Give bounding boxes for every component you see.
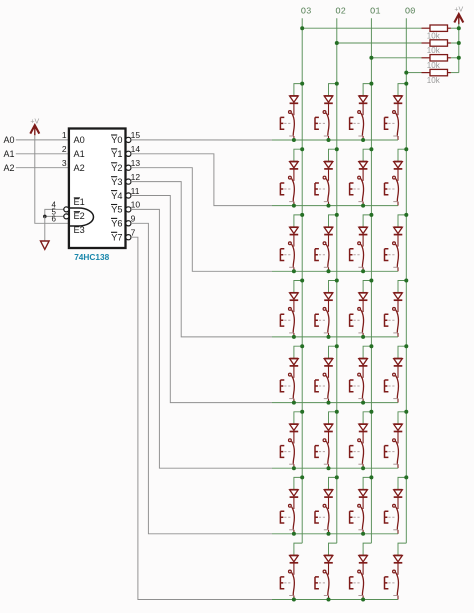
diode O1 row4 xyxy=(359,293,368,300)
bubble pin 15 xyxy=(126,137,131,142)
junction row 8 col O3 xyxy=(292,598,296,602)
pin label Y7 xyxy=(111,232,123,242)
svg-text:E2: E2 xyxy=(74,211,85,221)
wire resistor R1 to rail xyxy=(451,27,459,29)
junction tap O3 row3 xyxy=(300,213,304,217)
wire tap O0 row2 xyxy=(398,149,406,161)
svg-text:A0: A0 xyxy=(4,135,15,145)
wire diode to switch O1 row4 xyxy=(362,300,364,312)
wire switch to row O1 row3 xyxy=(362,267,364,271)
svg-text:Y5: Y5 xyxy=(111,205,122,215)
wire O2 to resistor R2 xyxy=(337,42,422,44)
svg-text:E1: E1 xyxy=(74,197,85,207)
switch O0 row3 xyxy=(385,242,399,267)
power +V right xyxy=(454,7,463,14)
diode O3 row6 xyxy=(290,424,299,431)
wire row 8 xyxy=(294,599,398,601)
junction row 1 col O1 xyxy=(361,138,365,142)
junction row 4 col O1 xyxy=(361,335,365,339)
svg-text:O2: O2 xyxy=(335,6,346,16)
wire column O3 xyxy=(301,18,303,543)
resistor R1 10k xyxy=(422,25,451,31)
wire row 3 xyxy=(294,270,398,272)
wire switch to row O1 row8 xyxy=(362,596,364,600)
pin label Y0 xyxy=(111,135,123,145)
wire +V to pin 6 E3 xyxy=(35,135,69,223)
junction tap O1 row5 xyxy=(369,344,373,348)
bubble pin 11 xyxy=(126,193,131,198)
svg-text:Y6: Y6 xyxy=(111,219,122,229)
diode O3 row8 xyxy=(290,555,299,562)
junction tap O2 row4 xyxy=(335,279,339,283)
wire row 1 xyxy=(294,139,398,141)
wire +V rail xyxy=(458,24,460,73)
bubble pin 4 xyxy=(64,207,69,212)
junction row 7 col O3 xyxy=(292,532,296,536)
pin label Y5 xyxy=(111,205,123,215)
wire tap O2 row7 xyxy=(329,477,337,489)
switch O3 row8 xyxy=(280,570,294,595)
wire tap O2 row3 xyxy=(329,215,337,227)
diode O2 row2 xyxy=(324,162,333,169)
wire row 4 left green xyxy=(272,336,294,338)
junction row 4 col O3 xyxy=(292,335,296,339)
wire diode to switch O2 row4 xyxy=(328,300,330,312)
junction tap O1 row6 xyxy=(369,410,373,414)
wire diode to switch O3 row8 xyxy=(293,563,295,575)
wire O3 to resistor R1 xyxy=(302,27,421,29)
resistor R4 10k xyxy=(422,69,451,75)
switch O2 row3 xyxy=(315,242,329,267)
svg-text:A0: A0 xyxy=(74,135,85,145)
wire switch to row O3 row2 xyxy=(293,202,295,206)
switch O2 row6 xyxy=(315,439,329,464)
wire diode to switch O2 row3 xyxy=(328,235,330,247)
wire column O0 xyxy=(405,18,407,543)
svg-text:3: 3 xyxy=(62,158,67,168)
wire diode to switch O3 row7 xyxy=(293,497,295,509)
diode O2 row7 xyxy=(324,490,333,497)
switch O0 row7 xyxy=(385,504,399,529)
wire diode to switch O2 row8 xyxy=(328,563,330,575)
switch O1 row7 xyxy=(350,504,364,529)
diode O0 row1 xyxy=(394,96,403,103)
wire column O1 xyxy=(370,18,372,543)
wire switch to row O1 row5 xyxy=(362,399,364,403)
svg-text:10k: 10k xyxy=(427,76,441,85)
diode O3 row5 xyxy=(290,359,299,366)
wire switch to row O0 row7 xyxy=(397,530,399,534)
junction row 5 col O1 xyxy=(361,401,365,405)
wire row 5 left green xyxy=(272,402,294,404)
wire tap O0 row7 xyxy=(398,477,406,489)
svg-text:O1: O1 xyxy=(370,6,381,16)
wire tap O0 row8 xyxy=(398,543,406,555)
switch O0 row4 xyxy=(385,308,399,333)
wire row 2 xyxy=(294,205,398,207)
wire diode to switch O2 row5 xyxy=(328,366,330,378)
wire switch to row O2 row1 xyxy=(328,136,330,140)
wire switch to row O3 row4 xyxy=(293,333,295,337)
wire diode to switch O2 row2 xyxy=(328,169,330,181)
wire switch to row O3 row6 xyxy=(293,464,295,468)
junction row 2 col O2 xyxy=(327,204,331,208)
wire tap O0 row4 xyxy=(398,281,406,293)
svg-text:E3: E3 xyxy=(74,225,85,235)
switch O1 row5 xyxy=(350,373,364,398)
pin label Y4 xyxy=(111,191,123,201)
junction tap O0 row2 xyxy=(404,147,408,151)
wire Y2 to row 3 xyxy=(131,168,272,272)
svg-text:O0: O0 xyxy=(405,6,416,16)
svg-text:14: 14 xyxy=(131,144,141,154)
wire diode to switch O3 row2 xyxy=(293,169,295,181)
wire O0 to resistor R4 xyxy=(406,72,421,74)
junction tap O1 row4 xyxy=(369,279,373,283)
wire tap O1 row2 xyxy=(363,149,371,161)
junction tap O2 row7 xyxy=(335,475,339,479)
wire diode to switch O2 row1 xyxy=(328,103,330,115)
junction tap O2 row5 xyxy=(335,344,339,348)
svg-text:2: 2 xyxy=(62,144,67,154)
switch O0 row5 xyxy=(385,373,399,398)
junction tap O1 row2 xyxy=(369,147,373,151)
bubble pin 12 xyxy=(126,179,131,184)
junction tap O3 row5 xyxy=(300,344,304,348)
wire tap O1 row4 xyxy=(363,281,371,293)
svg-text:13: 13 xyxy=(131,158,141,168)
wire resistor R4 to rail xyxy=(451,72,459,74)
wire diode to switch O3 row3 xyxy=(293,235,295,247)
junction row 2 col O3 xyxy=(292,204,296,208)
diode O1 row3 xyxy=(359,227,368,234)
wire diode to switch O0 row2 xyxy=(397,169,399,181)
wire switch to row O2 row2 xyxy=(328,202,330,206)
diode O1 row5 xyxy=(359,359,368,366)
junction pins 4-5 xyxy=(43,215,47,219)
junction tap O2 row6 xyxy=(335,410,339,414)
junction column O2 xyxy=(335,41,339,45)
wire diode to switch O3 row4 xyxy=(293,300,295,312)
junction row 6 col O2 xyxy=(327,466,331,470)
wire tap O2 row1 xyxy=(329,84,337,96)
wire switch to row O3 row3 xyxy=(293,267,295,271)
wire Y3 to row 4 xyxy=(131,182,272,337)
wire Y5 to row 6 xyxy=(131,209,272,468)
bubble pin 13 xyxy=(126,165,131,170)
diode O0 row4 xyxy=(394,293,403,300)
wire tap O1 row7 xyxy=(363,477,371,489)
pin label Y6 xyxy=(111,218,123,228)
diode O1 row7 xyxy=(359,490,368,497)
wire tap O2 row6 xyxy=(329,412,337,424)
resistor R2 10k xyxy=(422,40,451,46)
junction row 4 col O2 xyxy=(327,335,331,339)
wire tap O3 row6 xyxy=(294,412,302,424)
wire diode to switch O1 row7 xyxy=(362,497,364,509)
diode O2 row8 xyxy=(324,555,333,562)
switch O3 row1 xyxy=(280,111,294,136)
diode O3 row1 xyxy=(290,96,299,103)
switch O2 row4 xyxy=(315,308,329,333)
wire Y1 to row 2 xyxy=(131,154,272,206)
junction tap O2 row3 xyxy=(335,213,339,217)
diode O2 row1 xyxy=(324,96,333,103)
wire diode to switch O0 row4 xyxy=(397,300,399,312)
switch O0 row2 xyxy=(385,176,399,201)
wire tap O0 row5 xyxy=(398,346,406,358)
diode O1 row1 xyxy=(359,96,368,103)
junction row 2 col O1 xyxy=(361,204,365,208)
pin label E1 xyxy=(74,197,85,207)
diode O2 row5 xyxy=(324,359,333,366)
junction row 7 col O1 xyxy=(361,532,365,536)
wire diode to switch O3 row5 xyxy=(293,366,295,378)
switch O0 row1 xyxy=(385,111,399,136)
wire pin 4 E1 xyxy=(45,209,64,216)
switch O3 row4 xyxy=(280,308,294,333)
junction row 5 col O3 xyxy=(292,401,296,405)
wire O1 to resistor R3 xyxy=(371,57,421,59)
wire switch to row O1 row6 xyxy=(362,464,364,468)
wire tap O1 row1 xyxy=(363,84,371,96)
svg-text:Y7: Y7 xyxy=(111,233,122,243)
wire row 4 xyxy=(294,336,398,338)
wire switch to row O2 row7 xyxy=(328,530,330,534)
svg-text:15: 15 xyxy=(131,130,141,140)
wire row 2 left green xyxy=(272,205,294,207)
wire diode to switch O0 row6 xyxy=(397,432,399,444)
junction row 3 col O1 xyxy=(361,269,365,273)
wire tap O0 row1 xyxy=(398,84,406,96)
switch O0 row6 xyxy=(385,439,399,464)
junction tap O0 row3 xyxy=(404,213,408,217)
bubble pin 14 xyxy=(126,151,131,156)
svg-text:A2: A2 xyxy=(74,163,85,173)
wire tap O3 row4 xyxy=(294,281,302,293)
diode O0 row2 xyxy=(394,162,403,169)
wire tap O1 row3 xyxy=(363,215,371,227)
junction row 8 col O2 xyxy=(327,598,331,602)
pin label Y3 xyxy=(111,177,123,187)
wire tap O3 row2 xyxy=(294,149,302,161)
wire diode to switch O0 row5 xyxy=(397,366,399,378)
diode O1 row2 xyxy=(359,162,368,169)
svg-text:10: 10 xyxy=(131,200,141,210)
wire switch to row O1 row7 xyxy=(362,530,364,534)
wire diode to switch O1 row1 xyxy=(362,103,364,115)
wire tap O0 row6 xyxy=(398,412,406,424)
svg-text:11: 11 xyxy=(131,186,140,196)
svg-text:Y4: Y4 xyxy=(111,191,122,201)
wire tap O3 row3 xyxy=(294,215,302,227)
switch O1 row6 xyxy=(350,439,364,464)
junction tap O3 row7 xyxy=(300,475,304,479)
wire diode to switch O1 row6 xyxy=(362,432,364,444)
wire switch to row O0 row4 xyxy=(397,333,399,337)
switch O1 row4 xyxy=(350,308,364,333)
pin label Y2 xyxy=(111,163,123,173)
junction tap O3 row6 xyxy=(300,410,304,414)
wire diode to switch O2 row6 xyxy=(328,432,330,444)
wire switch to row O1 row1 xyxy=(362,136,364,140)
diode O2 row6 xyxy=(324,424,333,431)
switch O3 row6 xyxy=(280,439,294,464)
junction tap O0 row5 xyxy=(404,344,408,348)
junction tap O1 row1 xyxy=(369,82,373,86)
wire switch to row O0 row5 xyxy=(397,399,399,403)
diode O2 row3 xyxy=(324,227,333,234)
svg-text:10k: 10k xyxy=(427,61,441,70)
diode O3 row3 xyxy=(290,227,299,234)
wire A0 to pin 1 xyxy=(16,139,69,141)
wire Y6 to row 7 xyxy=(131,223,272,534)
junction row 8 col O1 xyxy=(361,598,365,602)
wire row 6 xyxy=(294,467,398,469)
wire tap O1 row5 xyxy=(363,346,371,358)
power +V left xyxy=(30,118,39,125)
junction tap O3 row2 xyxy=(300,147,304,151)
svg-text:A1: A1 xyxy=(74,149,85,159)
wire row 7 xyxy=(294,533,398,535)
wire column O2 xyxy=(336,18,338,543)
wire switch to row O2 row6 xyxy=(328,464,330,468)
switch O2 row2 xyxy=(315,176,329,201)
switch O2 row5 xyxy=(315,373,329,398)
junction row 3 col O2 xyxy=(327,269,331,273)
switch O1 row2 xyxy=(350,176,364,201)
wire diode to switch O0 row1 xyxy=(397,103,399,115)
bubble pin 10 xyxy=(126,207,131,212)
diode O3 row4 xyxy=(290,293,299,300)
junction tap O1 row3 xyxy=(369,213,373,217)
wire row 5 xyxy=(294,402,398,404)
switch O3 row2 xyxy=(280,176,294,201)
wire switch to row O0 row8 xyxy=(397,596,399,600)
wire row 6 left green xyxy=(272,467,294,469)
wire diode to switch O1 row2 xyxy=(362,169,364,181)
wire tap O3 row1 xyxy=(294,84,302,96)
diode O3 row7 xyxy=(290,490,299,497)
wire switch to row O2 row3 xyxy=(328,267,330,271)
wire Y7 to row 8 xyxy=(131,237,272,599)
wire tap O1 row6 xyxy=(363,412,371,424)
switch O3 row3 xyxy=(280,242,294,267)
junction rail row 1 xyxy=(457,26,461,30)
svg-text:Y1: Y1 xyxy=(111,149,122,159)
wire pin 5 E2 xyxy=(45,215,64,217)
svg-text:A1: A1 xyxy=(4,149,15,159)
svg-text:Y2: Y2 xyxy=(111,163,122,173)
switch O1 row1 xyxy=(350,111,364,136)
bubble pin 5 xyxy=(64,214,69,219)
junction row 1 col O2 xyxy=(327,138,331,142)
wire row 7 left green xyxy=(272,533,294,535)
svg-text:A2: A2 xyxy=(4,163,15,173)
wire diode to switch O3 row6 xyxy=(293,432,295,444)
wire diode to switch O1 row5 xyxy=(362,366,364,378)
wire switch to row O2 row5 xyxy=(328,399,330,403)
wire switch to row O2 row8 xyxy=(328,596,330,600)
enable gate shape xyxy=(69,208,94,226)
switch O3 row5 xyxy=(280,373,294,398)
wire switch to row O3 row7 xyxy=(293,530,295,534)
wire resistor R2 to rail xyxy=(451,42,459,44)
switch O3 row7 xyxy=(280,504,294,529)
svg-text:6: 6 xyxy=(52,214,57,223)
junction column O1 xyxy=(369,56,373,60)
junction tap O1 row7 xyxy=(369,475,373,479)
wire tap O2 row8 xyxy=(329,543,337,555)
wire diode to switch O0 row7 xyxy=(397,497,399,509)
switch O0 row8 xyxy=(385,570,399,595)
svg-text:O3: O3 xyxy=(301,6,312,16)
wire tap O2 row5 xyxy=(329,346,337,358)
diode O0 row5 xyxy=(394,359,403,366)
switch O1 row8 xyxy=(350,570,364,595)
junction tap O3 row1 xyxy=(300,82,304,86)
bubble pin 7 xyxy=(126,235,131,240)
junction tap O0 row4 xyxy=(404,279,408,283)
wire row 3 left green xyxy=(272,270,294,272)
switch O2 row1 xyxy=(315,111,329,136)
diode O1 row6 xyxy=(359,424,368,431)
wire switch to row O3 row1 xyxy=(293,136,295,140)
wire row 1 left green xyxy=(272,139,294,141)
wire to ground xyxy=(44,216,46,241)
junction tap O2 row2 xyxy=(335,147,339,151)
wire switch to row O0 row6 xyxy=(397,464,399,468)
wire tap O3 row8 xyxy=(294,543,302,555)
wire switch to row O1 row4 xyxy=(362,333,364,337)
wire tap O3 row7 xyxy=(294,477,302,489)
wire tap O3 row5 xyxy=(294,346,302,358)
ground xyxy=(41,241,50,249)
junction tap O3 row4 xyxy=(300,279,304,283)
svg-text:74HC138: 74HC138 xyxy=(74,252,109,262)
junction tap O0 row1 xyxy=(404,82,408,86)
wire row 8 left green xyxy=(272,599,294,601)
junction tap O2 row1 xyxy=(335,82,339,86)
resistor R3 10k xyxy=(422,55,451,61)
junction row 6 col O1 xyxy=(361,466,365,470)
wire diode to switch O2 row7 xyxy=(328,497,330,509)
junction rail row 2 xyxy=(457,41,461,45)
wire tap O1 row8 xyxy=(363,543,371,555)
wire tap O0 row3 xyxy=(398,215,406,227)
diode O3 row2 xyxy=(290,162,299,169)
switch O2 row7 xyxy=(315,504,329,529)
wire diode to switch O1 row3 xyxy=(362,235,364,247)
wire A2 to pin 3 xyxy=(16,167,69,169)
junction row 3 col O3 xyxy=(292,269,296,273)
wire switch to row O3 row5 xyxy=(293,399,295,403)
wire switch to row O1 row2 xyxy=(362,202,364,206)
wire resistor R3 to rail xyxy=(451,57,459,59)
svg-text:1: 1 xyxy=(62,130,67,140)
junction tap O0 row7 xyxy=(404,475,408,479)
wire diode to switch O0 row8 xyxy=(397,563,399,575)
junction tap O0 row6 xyxy=(404,410,408,414)
wire switch to row O0 row2 xyxy=(397,202,399,206)
diode O1 row8 xyxy=(359,555,368,562)
wire tap O2 row2 xyxy=(329,149,337,161)
wire Y0 to row 1 xyxy=(131,139,272,141)
svg-text:Y3: Y3 xyxy=(111,177,122,187)
bubble pin 9 xyxy=(126,221,131,226)
wire tap O2 row4 xyxy=(329,281,337,293)
svg-text:10k: 10k xyxy=(427,31,441,40)
